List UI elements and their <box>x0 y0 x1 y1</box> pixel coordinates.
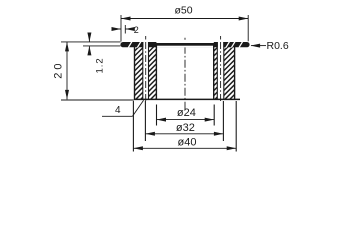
hole center dash-dot redraw over white <box>145 42 147 99</box>
dimension 20 bottom extension line <box>61 99 134 101</box>
svg-text:ø40: ø40 <box>178 136 197 148</box>
svg-text:R0.6: R0.6 <box>267 40 289 52</box>
svg-text:2: 2 <box>134 25 139 35</box>
right hole center line <box>220 36 222 101</box>
dimension 20 top extension line <box>61 41 121 43</box>
svg-text:ø50: ø50 <box>175 5 193 17</box>
svg-text:1.2: 1.2 <box>95 57 106 73</box>
flange thin section (blackened strip) <box>120 41 249 47</box>
dimension 2 (hole dia) <box>112 25 139 35</box>
right hole edges <box>216 42 218 99</box>
body outer edges <box>134 47 136 100</box>
dimension ø40 <box>133 101 236 152</box>
white slashes in flange section <box>128 41 132 47</box>
bore edges <box>155 45 157 99</box>
main vertical center line <box>184 38 186 112</box>
dimension ø24 <box>157 105 215 126</box>
hole slots (white) through part <box>143 42 148 100</box>
dimension ø50 <box>121 5 248 42</box>
svg-text:ø24: ø24 <box>177 107 196 119</box>
left hole edges <box>142 42 144 99</box>
dimension 20 <box>53 42 70 100</box>
left hole center line <box>145 36 147 101</box>
right wall hatched section <box>214 46 218 99</box>
leader R0.6 <box>251 40 289 52</box>
left wall hatched section <box>135 46 143 99</box>
dimension 1.2 <box>83 33 121 74</box>
svg-text:ø32: ø32 <box>176 122 195 134</box>
dimension ø32 <box>145 101 223 141</box>
svg-text:20: 20 <box>53 61 65 79</box>
svg-text:4: 4 <box>115 105 121 116</box>
leader 4 (hole count) <box>102 100 144 116</box>
bottom face <box>134 98 240 100</box>
